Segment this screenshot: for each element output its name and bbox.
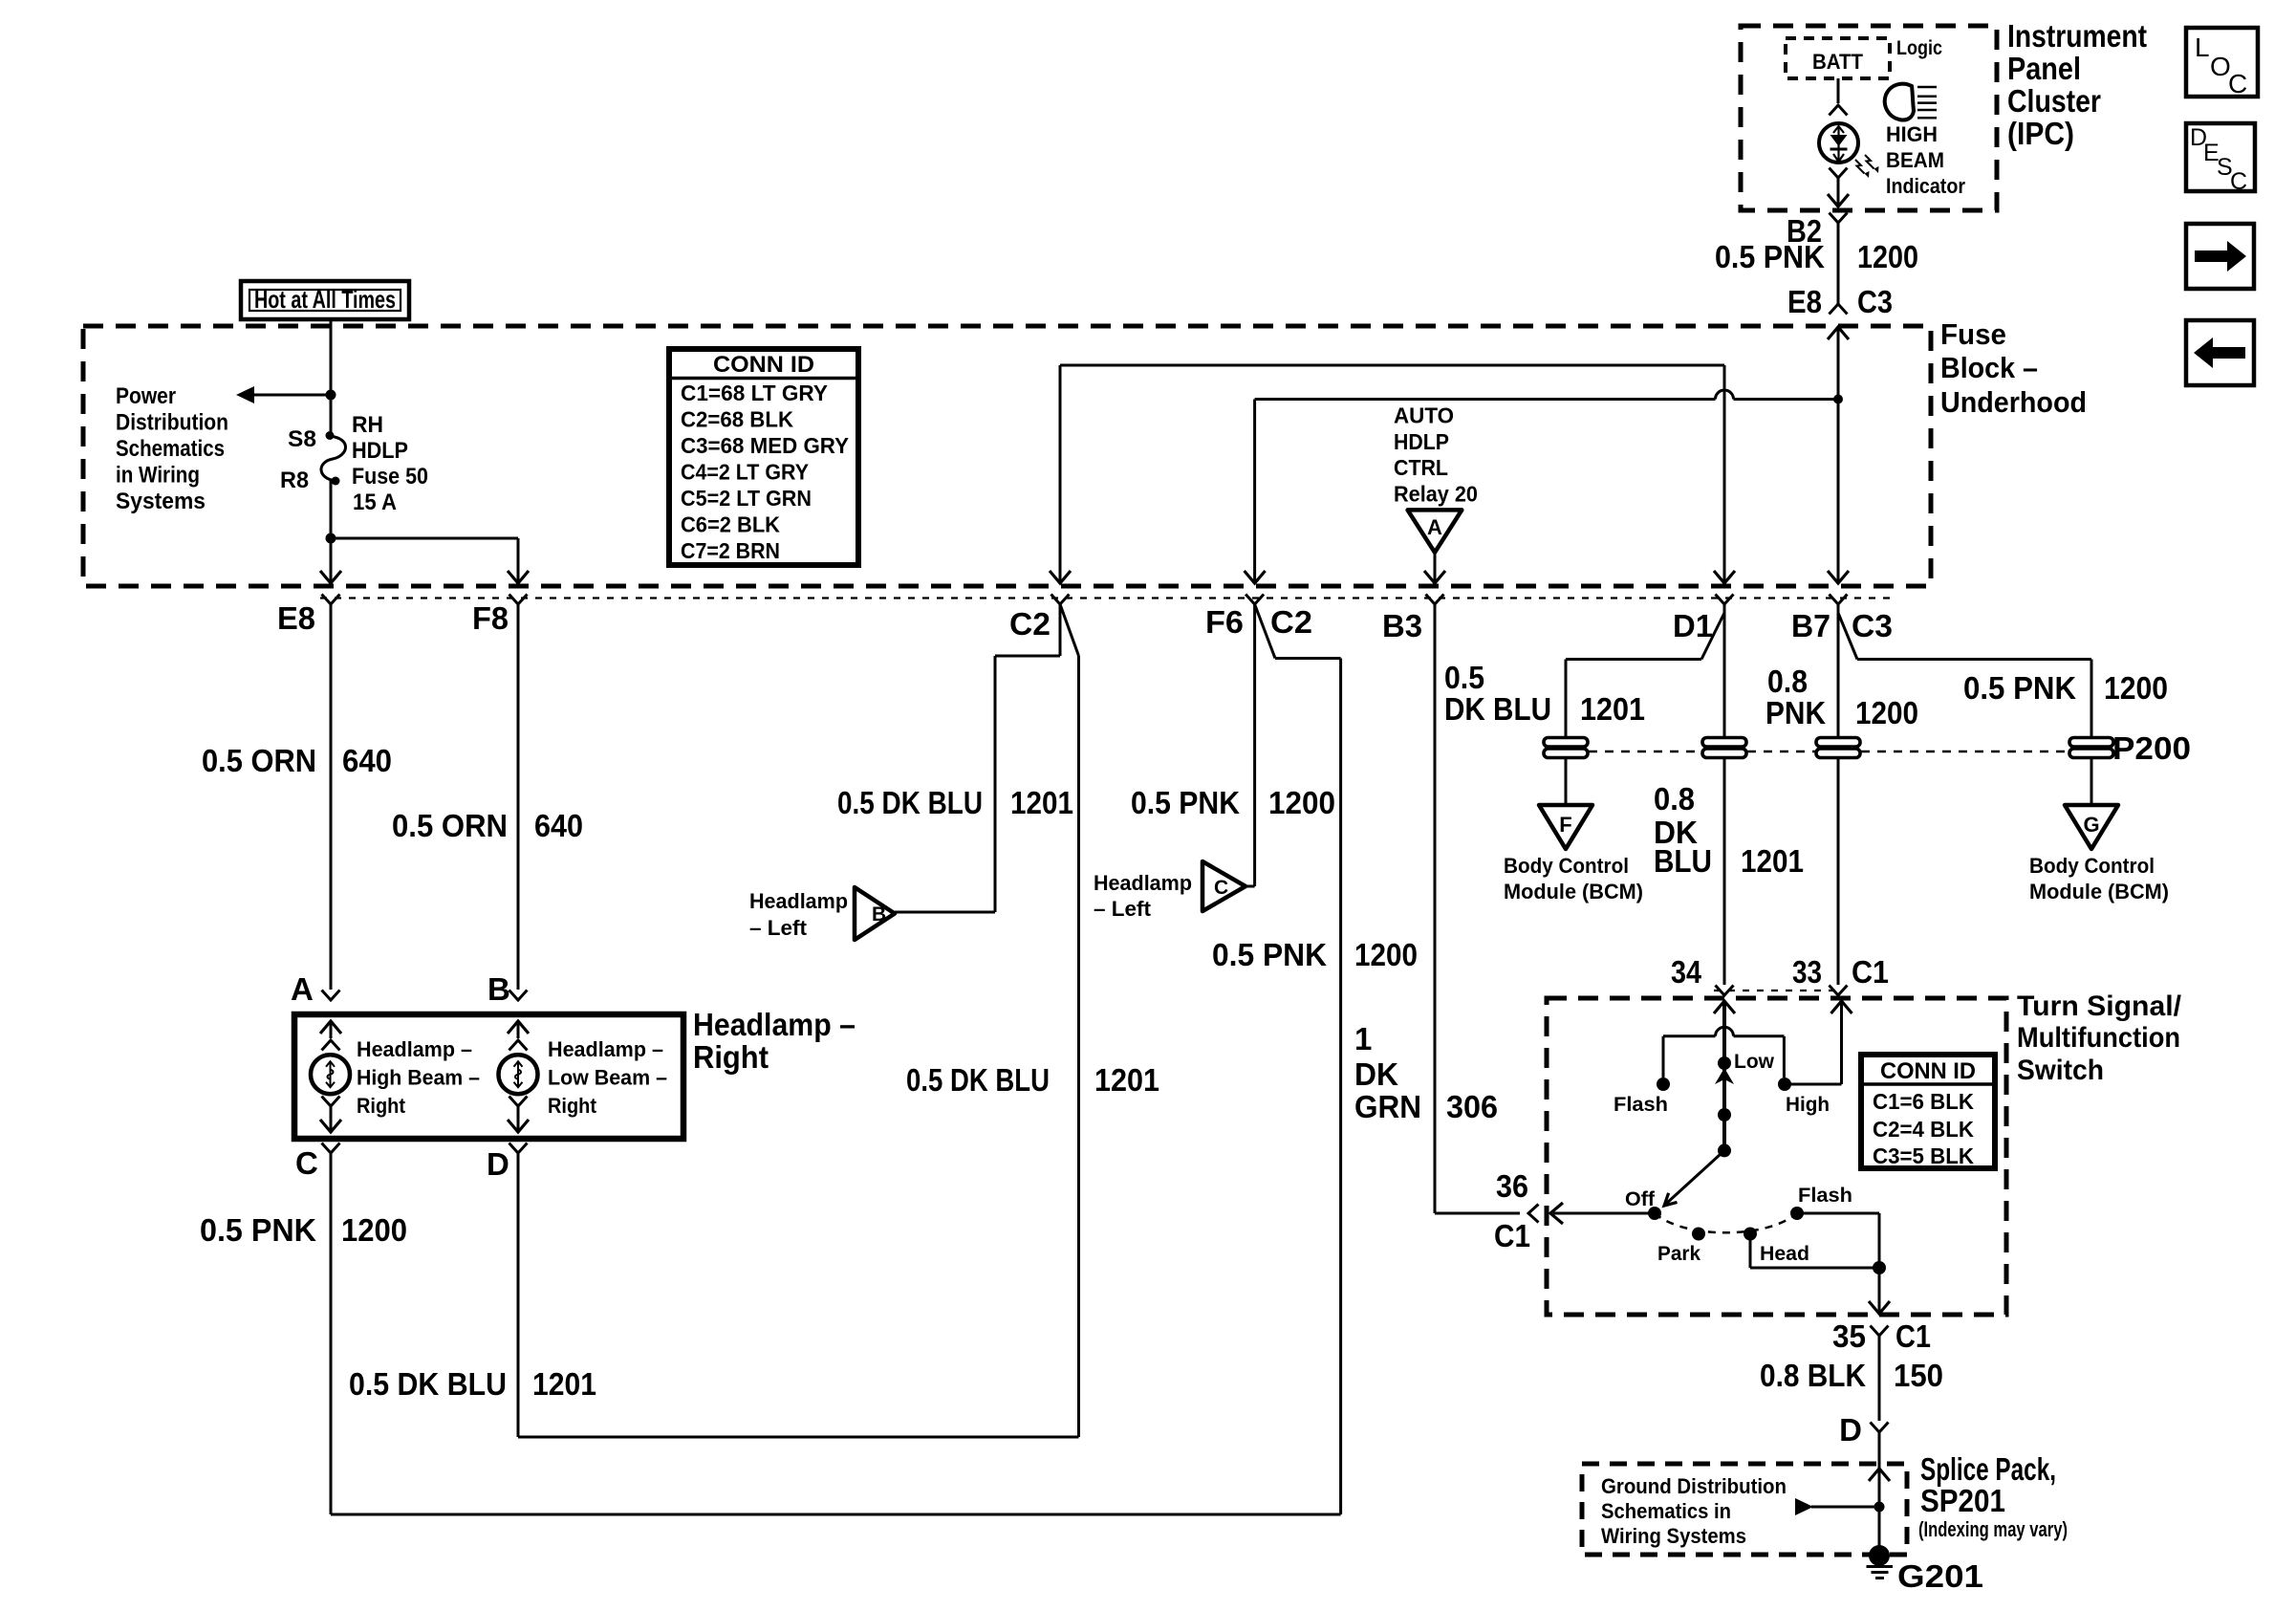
svg-text:High Beam –: High Beam – xyxy=(357,1066,480,1090)
svg-text:HDLP: HDLP xyxy=(1394,429,1449,454)
svg-text:C2: C2 xyxy=(1270,604,1312,640)
svg-text:(IPC): (IPC) xyxy=(2007,116,2074,151)
svg-text:Off: Off xyxy=(1625,1188,1656,1210)
svg-text:Ground Distribution: Ground Distribution xyxy=(1601,1474,1787,1498)
svg-text:Schematics: Schematics xyxy=(116,436,225,462)
svg-text:C1: C1 xyxy=(1852,954,1889,990)
svg-text:C4=2 LT GRY: C4=2 LT GRY xyxy=(681,460,809,485)
svg-text:0.5 PNK: 0.5 PNK xyxy=(200,1212,316,1248)
svg-text:Schematics in: Schematics in xyxy=(1601,1499,1731,1523)
svg-text:Park: Park xyxy=(1657,1243,1700,1265)
svg-text:CONN ID: CONN ID xyxy=(713,352,814,378)
svg-text:C3: C3 xyxy=(1857,284,1893,319)
svg-text:G201: G201 xyxy=(1897,1558,1983,1594)
svg-text:306: 306 xyxy=(1446,1089,1498,1124)
svg-text:E8: E8 xyxy=(1787,284,1822,319)
svg-text:34: 34 xyxy=(1671,954,1702,990)
svg-text:Cluster: Cluster xyxy=(2007,83,2101,119)
svg-text:0.5 PNK: 0.5 PNK xyxy=(1963,670,2076,706)
svg-text:(Indexing may vary): (Indexing may vary) xyxy=(1918,1517,2068,1541)
svg-text:CONN ID: CONN ID xyxy=(1880,1058,1976,1084)
svg-text:Body Control: Body Control xyxy=(1504,854,1629,878)
svg-text:Hot at All Times: Hot at All Times xyxy=(254,285,396,314)
svg-text:Right: Right xyxy=(693,1039,769,1075)
svg-text:DK: DK xyxy=(1354,1056,1398,1092)
svg-text:C3=68 MED GRY: C3=68 MED GRY xyxy=(681,433,849,458)
svg-text:PNK: PNK xyxy=(1765,695,1826,730)
svg-text:Headlamp: Headlamp xyxy=(749,889,848,913)
svg-text:0.5 ORN: 0.5 ORN xyxy=(202,743,316,778)
svg-text:1: 1 xyxy=(1354,1021,1372,1056)
svg-text:1200: 1200 xyxy=(1857,239,1918,274)
svg-text:Switch: Switch xyxy=(2017,1055,2104,1086)
svg-text:1200: 1200 xyxy=(341,1212,407,1248)
svg-text:A: A xyxy=(1427,515,1442,539)
svg-text:B7: B7 xyxy=(1791,608,1830,643)
svg-text:C: C xyxy=(1214,877,1228,899)
svg-text:High: High xyxy=(1786,1094,1830,1116)
svg-text:C2=68 BLK: C2=68 BLK xyxy=(681,407,793,432)
svg-text:C1=68 LT GRY: C1=68 LT GRY xyxy=(681,381,828,405)
svg-text:F: F xyxy=(1559,813,1571,837)
svg-text:Low Beam –: Low Beam – xyxy=(548,1066,667,1090)
svg-text:36: 36 xyxy=(1496,1168,1528,1204)
svg-text:Systems: Systems xyxy=(116,489,206,514)
svg-text:Body Control: Body Control xyxy=(2029,854,2155,878)
svg-text:1201: 1201 xyxy=(532,1366,596,1402)
svg-text:in Wiring: in Wiring xyxy=(116,463,200,489)
svg-text:C2: C2 xyxy=(1009,606,1051,642)
svg-text:Headlamp: Headlamp xyxy=(1094,871,1192,895)
svg-text:0.5 PNK: 0.5 PNK xyxy=(1131,785,1240,820)
svg-text:1200: 1200 xyxy=(1354,937,1418,972)
svg-text:D: D xyxy=(487,1146,509,1182)
svg-text:Multifunction: Multifunction xyxy=(2017,1022,2180,1054)
svg-text:1201: 1201 xyxy=(1741,843,1804,879)
svg-text:0.8 BLK: 0.8 BLK xyxy=(1760,1358,1866,1393)
svg-text:Fuse 50: Fuse 50 xyxy=(352,464,428,490)
svg-text:0.5 DK BLU: 0.5 DK BLU xyxy=(837,785,983,820)
svg-text:Underhood: Underhood xyxy=(1940,385,2087,419)
svg-text:P200: P200 xyxy=(2112,730,2191,766)
svg-text:640: 640 xyxy=(534,808,583,843)
svg-text:Module (BCM): Module (BCM) xyxy=(1504,880,1643,903)
svg-text:R8: R8 xyxy=(280,468,309,493)
svg-text:Headlamp –: Headlamp – xyxy=(693,1007,856,1042)
svg-text:Headlamp –: Headlamp – xyxy=(548,1037,663,1061)
svg-text:L: L xyxy=(2195,33,2210,62)
svg-text:1200: 1200 xyxy=(1855,695,1918,730)
svg-text:15 A: 15 A xyxy=(353,490,397,515)
svg-text:D1: D1 xyxy=(1673,608,1713,643)
svg-text:Headlamp –: Headlamp – xyxy=(357,1037,472,1061)
svg-text:BEAM: BEAM xyxy=(1886,148,1944,172)
svg-text:35: 35 xyxy=(1832,1318,1866,1354)
svg-text:D: D xyxy=(1839,1412,1862,1448)
svg-text:B3: B3 xyxy=(1382,608,1422,643)
svg-text:1201: 1201 xyxy=(1580,691,1645,727)
svg-text:B: B xyxy=(487,971,510,1007)
svg-text:Distribution: Distribution xyxy=(116,410,228,436)
svg-text:1200: 1200 xyxy=(1268,785,1335,820)
svg-text:– Left: – Left xyxy=(1094,897,1152,921)
svg-text:Right: Right xyxy=(548,1094,597,1118)
svg-text:CTRL: CTRL xyxy=(1394,455,1448,480)
svg-text:Flash: Flash xyxy=(1614,1094,1668,1116)
svg-text:C: C xyxy=(2228,69,2247,98)
svg-text:HIGH: HIGH xyxy=(1886,122,1938,146)
svg-text:HDLP: HDLP xyxy=(352,438,408,464)
svg-text:F8: F8 xyxy=(472,600,509,636)
svg-text:Flash: Flash xyxy=(1798,1185,1852,1207)
svg-text:BATT: BATT xyxy=(1812,50,1864,74)
svg-text:C: C xyxy=(295,1145,318,1181)
svg-text:0.5 DK BLU: 0.5 DK BLU xyxy=(349,1366,507,1402)
svg-text:C6=2 BLK: C6=2 BLK xyxy=(681,512,780,537)
svg-text:C2=4 BLK: C2=4 BLK xyxy=(1873,1117,1974,1142)
svg-text:E8: E8 xyxy=(277,600,315,636)
svg-text:0.5: 0.5 xyxy=(1444,660,1484,695)
svg-text:C3: C3 xyxy=(1852,608,1893,643)
svg-text:Indicator: Indicator xyxy=(1886,174,1965,198)
svg-text:C5=2 LT GRN: C5=2 LT GRN xyxy=(681,486,812,511)
svg-text:Block –: Block – xyxy=(1940,351,2038,384)
svg-text:C1: C1 xyxy=(1895,1318,1931,1354)
svg-text:Logic: Logic xyxy=(1896,37,1942,59)
svg-text:S8: S8 xyxy=(288,426,316,452)
svg-text:Head: Head xyxy=(1760,1243,1809,1265)
svg-text:Fuse: Fuse xyxy=(1940,317,2006,351)
svg-text:Splice Pack,: Splice Pack, xyxy=(1920,1451,2056,1487)
svg-text:33: 33 xyxy=(1792,954,1822,990)
svg-text:G: G xyxy=(2083,813,2099,837)
svg-text:B: B xyxy=(872,903,886,925)
svg-text:Low: Low xyxy=(1734,1051,1775,1073)
svg-text:0.8: 0.8 xyxy=(1654,781,1695,816)
svg-text:RH: RH xyxy=(352,412,383,438)
svg-text:BLU: BLU xyxy=(1654,843,1712,879)
svg-text:– Left: – Left xyxy=(749,916,808,940)
svg-text:F6: F6 xyxy=(1205,604,1244,640)
svg-text:C3=5 BLK: C3=5 BLK xyxy=(1873,1143,1974,1168)
svg-text:Relay 20: Relay 20 xyxy=(1394,482,1478,507)
svg-text:1201: 1201 xyxy=(1094,1062,1159,1098)
svg-text:Wiring Systems: Wiring Systems xyxy=(1601,1524,1746,1548)
svg-text:C1=6 BLK: C1=6 BLK xyxy=(1873,1089,1974,1114)
svg-text:1201: 1201 xyxy=(1010,785,1073,820)
svg-text:C: C xyxy=(2230,168,2247,195)
svg-text:640: 640 xyxy=(342,743,392,778)
svg-text:Instrument: Instrument xyxy=(2007,18,2147,54)
svg-text:C1: C1 xyxy=(1494,1218,1530,1253)
svg-text:150: 150 xyxy=(1894,1358,1943,1393)
svg-text:Power: Power xyxy=(116,383,176,409)
svg-text:Turn Signal/: Turn Signal/ xyxy=(2017,991,2182,1022)
svg-text:A: A xyxy=(291,971,314,1007)
svg-text:0.8: 0.8 xyxy=(1767,664,1808,699)
svg-text:0.5 PNK: 0.5 PNK xyxy=(1212,937,1327,972)
svg-text:Panel: Panel xyxy=(2007,51,2081,86)
svg-text:0.5 DK BLU: 0.5 DK BLU xyxy=(906,1062,1050,1098)
svg-text:Right: Right xyxy=(357,1094,406,1118)
svg-text:0.5 PNK: 0.5 PNK xyxy=(1715,239,1825,274)
svg-text:SP201: SP201 xyxy=(1920,1483,2005,1518)
svg-text:GRN: GRN xyxy=(1354,1089,1421,1124)
svg-text:0.5 ORN: 0.5 ORN xyxy=(392,808,508,843)
svg-text:1200: 1200 xyxy=(2104,670,2168,706)
svg-text:Module (BCM): Module (BCM) xyxy=(2029,880,2169,903)
svg-text:C7=2 BRN: C7=2 BRN xyxy=(681,538,780,563)
svg-text:DK BLU: DK BLU xyxy=(1444,691,1551,727)
svg-text:AUTO: AUTO xyxy=(1394,403,1454,428)
